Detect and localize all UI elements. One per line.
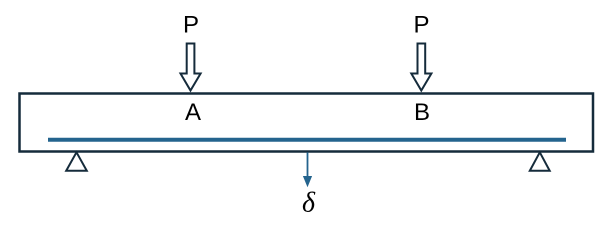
- svg-text:A: A: [185, 99, 201, 126]
- member bar (thick teal line inside beam): [48, 138, 566, 142]
- svg-text:P: P: [183, 11, 199, 38]
- beam outline rectangle: [20, 94, 594, 152]
- right pin support triangle: [530, 152, 550, 171]
- force arrow P at B (hollow down arrow): [411, 44, 431, 91]
- force arrow P at A (hollow down arrow): [181, 44, 201, 91]
- svg-text:P: P: [413, 11, 429, 38]
- svg-text:B: B: [414, 99, 430, 126]
- deflection arrow head: [303, 176, 312, 187]
- left pin support triangle: [66, 152, 87, 171]
- svg-text:δ: δ: [302, 187, 316, 218]
- deflection arrow line: [307, 152, 309, 178]
